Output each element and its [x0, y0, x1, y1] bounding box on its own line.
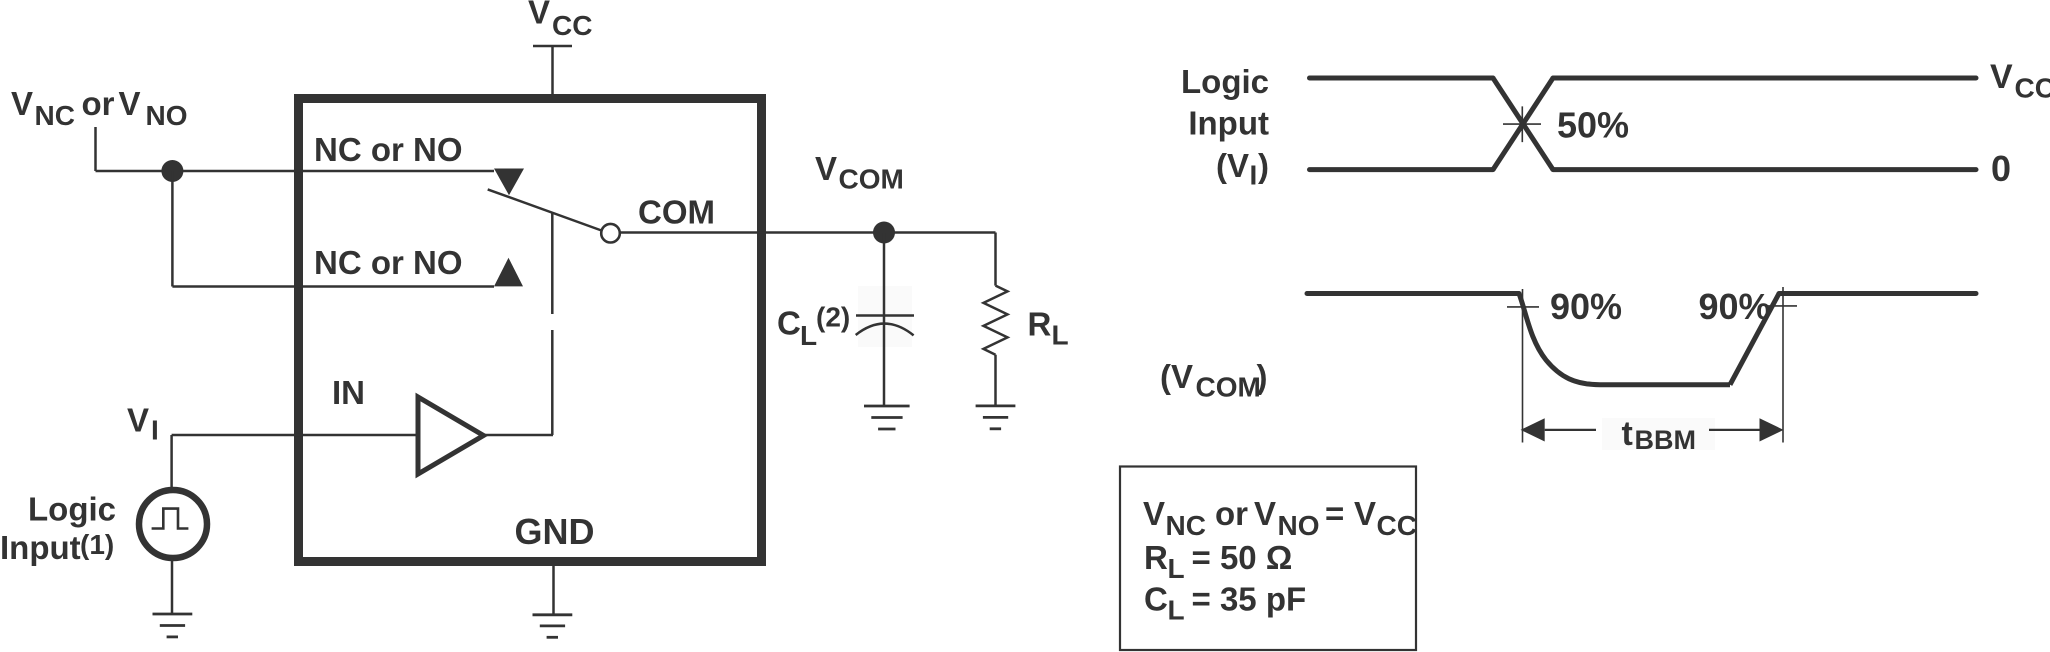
label VI	[127, 402, 159, 446]
label (VCOM)	[1160, 358, 1268, 403]
waveform VI high segment left	[1310, 76, 1494, 81]
svg-text:= 50 Ω: = 50 Ω	[1192, 539, 1293, 576]
wire VCC lead to box	[551, 46, 554, 95]
waveform VI low segment right	[1553, 167, 1976, 172]
svg-text:L: L	[1052, 320, 1069, 351]
svg-text:Logic: Logic	[1181, 63, 1269, 100]
svg-text:= 35 pF: = 35 pF	[1192, 581, 1307, 618]
svg-text:C: C	[777, 304, 801, 341]
waveform VI crossing fall edge	[1493, 78, 1553, 170]
ground symbol (RL)	[976, 406, 1016, 429]
svg-text:): )	[1258, 147, 1269, 184]
label RL	[1028, 306, 1069, 351]
svg-text:NC: NC	[35, 100, 75, 131]
svg-text:V: V	[127, 402, 149, 439]
wire RL to ground	[994, 355, 997, 406]
svg-text:R: R	[1144, 539, 1168, 576]
buffer driver U1	[418, 397, 484, 474]
switch contact triangle upper (down-pointing)	[494, 169, 524, 196]
source V1 logic input (circle)	[139, 490, 207, 558]
switch blade	[488, 189, 602, 230]
node VCOM junction dot	[873, 222, 895, 244]
capacitor CL top plate	[856, 314, 914, 317]
svg-text:Input: Input	[0, 529, 81, 566]
node junction dot	[161, 160, 183, 182]
label CL(2)	[777, 302, 850, 351]
svg-text:V: V	[1254, 495, 1276, 532]
label VCOM	[815, 150, 904, 195]
wire to NC terminal 2	[172, 285, 494, 288]
svg-text:C: C	[1144, 581, 1168, 618]
shading behind tBBM	[1602, 418, 1715, 450]
measurement line right (90% rise)	[1782, 287, 1784, 443]
label VCC (top supply)	[528, 0, 592, 41]
pulse symbol inside source	[152, 509, 189, 529]
waveform VCOM bottom flat	[1600, 382, 1730, 387]
wire VNC/VNO lead down	[94, 127, 97, 171]
svg-text:90%: 90%	[1699, 286, 1771, 327]
wire VI source lead	[170, 435, 173, 487]
svg-text:V: V	[1143, 495, 1165, 532]
svg-text:V: V	[1354, 495, 1376, 532]
label VNC or VNO	[11, 85, 188, 131]
measurement line left (90% fall)	[1522, 289, 1524, 443]
svg-text:=: =	[1325, 495, 1344, 532]
waveform VCOM rise edge	[1730, 294, 1779, 385]
svg-text:CC: CC	[1377, 510, 1417, 541]
ground symbol (source)	[153, 614, 193, 637]
svg-text:IN: IN	[332, 374, 365, 411]
svg-text:V: V	[11, 85, 33, 122]
svg-text:t: t	[1622, 415, 1633, 453]
waveform VCOM fall curve	[1519, 294, 1600, 385]
tick 90% left	[1507, 306, 1539, 308]
crosshair marker at 50%	[1503, 106, 1541, 142]
svg-text:L: L	[1168, 553, 1185, 584]
svg-text:BBM: BBM	[1635, 425, 1697, 455]
DUT box	[299, 99, 762, 562]
svg-text:Input: Input	[1188, 105, 1269, 142]
wire to RL	[994, 233, 997, 286]
waveform VI low segment left	[1310, 167, 1494, 172]
conditions note box	[1120, 467, 1416, 651]
capacitor CL lead	[883, 233, 886, 325]
svg-text:V: V	[1990, 58, 2013, 96]
svg-text:CC: CC	[2015, 73, 2050, 104]
waveform VI crossing rise edge	[1493, 78, 1553, 170]
switch control linkage (dashed)	[551, 213, 554, 435]
waveform VCOM high left	[1307, 291, 1519, 296]
wire GND lead	[552, 566, 555, 614]
svg-text:GND: GND	[515, 511, 595, 552]
svg-text:(V: (V	[1160, 358, 1193, 395]
power bar VCC	[533, 45, 572, 48]
svg-text:(V: (V	[1216, 147, 1249, 184]
svg-text:R: R	[1028, 306, 1052, 343]
svg-text:V: V	[528, 0, 550, 31]
wire junction drop	[171, 171, 174, 287]
svg-text:CC: CC	[552, 10, 592, 41]
svg-text:(2): (2)	[816, 302, 850, 333]
svg-text:(1): (1)	[80, 529, 114, 560]
capacitor CL curved plate	[856, 324, 914, 336]
svg-text:or: or	[1215, 495, 1248, 532]
label Logic Input (VI)	[1181, 63, 1269, 191]
svg-text:I: I	[1250, 160, 1258, 191]
label VCC (waveform high level)	[1990, 58, 2050, 104]
svg-text:NO: NO	[1278, 510, 1320, 541]
capacitor CL bottom lead	[883, 324, 886, 406]
switch contact triangle lower (up-pointing)	[494, 258, 523, 287]
wire to NC terminal 1	[96, 170, 495, 173]
label tBBM	[1622, 415, 1697, 455]
switch COM pole circle	[601, 224, 620, 243]
svg-text:COM: COM	[839, 164, 904, 195]
svg-text:NC or NO: NC or NO	[314, 131, 463, 168]
svg-text:V: V	[815, 150, 837, 187]
svg-text:L: L	[800, 320, 817, 351]
svg-text:I: I	[151, 415, 159, 446]
svg-text:NC or NO: NC or NO	[314, 244, 463, 281]
wire buffer output	[484, 434, 554, 437]
label Logic Input(1)	[0, 491, 116, 567]
svg-text:): )	[1257, 358, 1268, 395]
waveform VI high segment right	[1553, 76, 1976, 81]
dimension arrow right (tBBM)	[1709, 429, 1760, 431]
svg-text:or: or	[82, 85, 115, 122]
waveform VCOM high right	[1779, 291, 1976, 296]
svg-text:Logic: Logic	[28, 491, 116, 528]
resistor RL zigzag	[984, 286, 1008, 355]
svg-text:COM: COM	[638, 194, 715, 231]
svg-text:V: V	[119, 85, 141, 122]
svg-text:NO: NO	[146, 100, 188, 131]
note line 3: CL = 35 pF	[1144, 581, 1306, 626]
svg-text:50%: 50%	[1557, 105, 1629, 146]
svg-text:L: L	[1168, 595, 1185, 626]
wire source to ground	[171, 558, 174, 614]
note line 1: VNC or VNO = VCC	[1143, 495, 1417, 541]
tick 90% right	[1765, 305, 1797, 307]
ground symbol (CL)	[864, 406, 910, 429]
ground symbol (GND pin)	[533, 615, 573, 638]
svg-text:COM: COM	[1196, 372, 1261, 403]
svg-text:0: 0	[1991, 148, 2011, 189]
dimension arrow left (tBBM)	[1521, 418, 1545, 441]
svg-text:90%: 90%	[1550, 286, 1622, 327]
wire VI to buffer	[172, 434, 418, 437]
shading behind capacitor	[858, 286, 912, 347]
wire COM output	[621, 231, 996, 234]
svg-text:NC: NC	[1166, 510, 1206, 541]
note line 2: RL = 50 ohm	[1144, 539, 1292, 584]
